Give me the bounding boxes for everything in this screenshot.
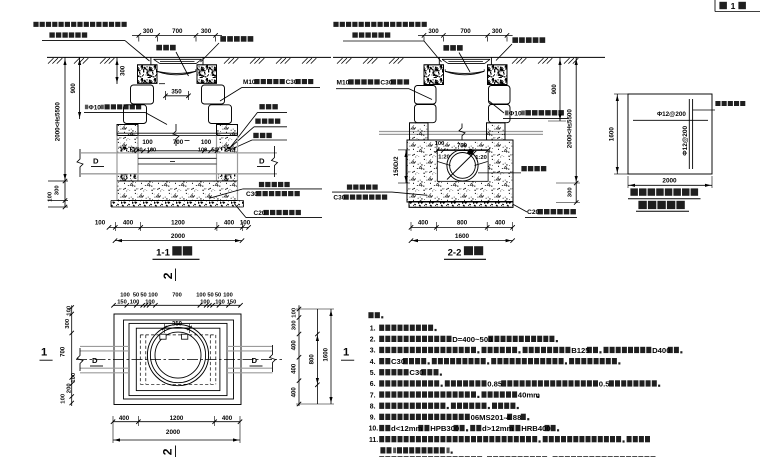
svg-text:6.: 6.	[370, 381, 376, 388]
svg-text:50: 50	[140, 292, 146, 298]
svg-text:2: 2	[161, 448, 175, 455]
svg-text:9.: 9.	[370, 415, 376, 422]
svg-text:100: 100	[200, 300, 210, 306]
svg-text:1-1: 1-1	[156, 248, 170, 259]
svg-text:300: 300	[201, 28, 212, 35]
svg-text:0.85: 0.85	[487, 379, 503, 388]
svg-text:400: 400	[291, 340, 298, 351]
svg-text:2000<H≤5500: 2000<H≤5500	[55, 102, 62, 142]
svg-text:100: 100	[240, 220, 251, 227]
svg-text:700: 700	[172, 28, 183, 35]
svg-text:2: 2	[161, 272, 175, 279]
svg-text:50: 50	[207, 292, 213, 298]
svg-text:100: 100	[61, 393, 67, 404]
svg-text:1.: 1.	[370, 325, 376, 332]
svg-text:2000: 2000	[166, 429, 181, 436]
svg-text:100: 100	[130, 300, 140, 306]
svg-text:400: 400	[418, 220, 429, 227]
svg-text:700: 700	[457, 144, 468, 150]
svg-text:400: 400	[224, 220, 235, 227]
svg-text:300: 300	[492, 28, 503, 35]
svg-text:150D/2: 150D/2	[393, 156, 400, 176]
svg-text:200: 200	[67, 383, 73, 394]
svg-text:100: 100	[71, 372, 77, 383]
svg-text:2000: 2000	[171, 233, 186, 240]
svg-text:2000: 2000	[662, 178, 677, 185]
svg-text:400: 400	[119, 415, 130, 422]
svg-text:5.: 5.	[370, 370, 376, 377]
svg-text:50: 50	[215, 292, 221, 298]
svg-text:100: 100	[148, 292, 158, 298]
svg-text:1600: 1600	[323, 347, 330, 361]
svg-text:400: 400	[222, 415, 233, 422]
svg-text:350: 350	[171, 89, 182, 96]
svg-text:100: 100	[435, 141, 445, 147]
svg-text:06MS201-4: 06MS201-4	[471, 413, 511, 422]
svg-text:1200: 1200	[171, 220, 185, 227]
svg-text:50: 50	[133, 292, 139, 298]
svg-text:100: 100	[196, 292, 206, 298]
svg-text:150: 150	[117, 300, 127, 306]
svg-text:D: D	[93, 156, 99, 165]
svg-text:2-2: 2-2	[448, 248, 462, 259]
svg-text:100: 100	[223, 292, 233, 298]
svg-text:10.: 10.	[369, 426, 379, 433]
svg-text:700: 700	[60, 346, 67, 357]
svg-text:100: 100	[120, 292, 130, 298]
svg-text:50: 50	[211, 147, 217, 153]
svg-text:100: 100	[67, 305, 73, 316]
svg-text:800: 800	[457, 220, 468, 227]
svg-text:400: 400	[291, 387, 298, 398]
svg-text:700: 700	[173, 139, 184, 146]
svg-text:D: D	[252, 356, 258, 365]
svg-text:100: 100	[48, 191, 54, 202]
svg-text:150: 150	[227, 300, 237, 306]
svg-text:d>12mm: d>12mm	[482, 424, 514, 433]
svg-text:88: 88	[513, 413, 522, 422]
svg-text:2.: 2.	[370, 337, 376, 344]
svg-text:700: 700	[460, 28, 471, 35]
svg-text:Φ12@200: Φ12@200	[657, 111, 686, 118]
svg-text:Φ12@200: Φ12@200	[682, 126, 689, 156]
svg-text:1: 1	[41, 347, 47, 359]
svg-text:100: 100	[201, 139, 212, 146]
svg-text:D=400~500: D=400~500	[452, 335, 492, 344]
svg-text:900: 900	[551, 84, 558, 95]
svg-text:Φ10: Φ10	[89, 104, 102, 111]
svg-text:8.: 8.	[370, 403, 376, 410]
svg-text:900: 900	[70, 83, 77, 94]
svg-text:350: 350	[172, 322, 183, 328]
svg-text:11.: 11.	[369, 437, 378, 444]
svg-text:0.5: 0.5	[599, 379, 610, 388]
svg-text:1:20: 1:20	[475, 155, 487, 161]
svg-text:4.: 4.	[370, 359, 376, 366]
svg-text:Φ10: Φ10	[509, 110, 522, 117]
svg-text:400: 400	[495, 220, 506, 227]
svg-text:300: 300	[55, 185, 61, 196]
svg-text:40mm: 40mm	[518, 391, 540, 400]
svg-text:300: 300	[143, 28, 154, 35]
svg-text:300: 300	[428, 28, 439, 35]
svg-text:1600: 1600	[455, 233, 470, 240]
svg-text:d<12mm: d<12mm	[391, 424, 423, 433]
svg-text:1:20: 1:20	[438, 154, 450, 160]
svg-text:300: 300	[568, 187, 574, 198]
svg-text:300: 300	[65, 318, 71, 329]
svg-text:400: 400	[291, 363, 298, 374]
svg-text:M10: M10	[337, 80, 350, 87]
svg-text:1: 1	[731, 1, 736, 11]
svg-text:300: 300	[120, 65, 127, 76]
svg-text:1200: 1200	[170, 415, 184, 422]
svg-text:D400: D400	[652, 346, 670, 355]
svg-text:1600: 1600	[609, 127, 616, 142]
svg-text:400: 400	[123, 220, 134, 227]
svg-text:1: 1	[343, 347, 349, 359]
svg-text:3.: 3.	[370, 348, 376, 355]
svg-text:2000<H≤5500: 2000<H≤5500	[567, 109, 574, 149]
svg-text:7.: 7.	[370, 392, 376, 399]
svg-text:100: 100	[142, 139, 153, 146]
svg-text:D: D	[92, 356, 98, 365]
svg-text:100: 100	[95, 220, 106, 227]
svg-text:700: 700	[172, 292, 182, 298]
svg-text:300: 300	[292, 320, 298, 331]
svg-text:M10: M10	[243, 79, 256, 86]
svg-text:D: D	[259, 156, 265, 165]
svg-text:800: 800	[309, 354, 316, 365]
